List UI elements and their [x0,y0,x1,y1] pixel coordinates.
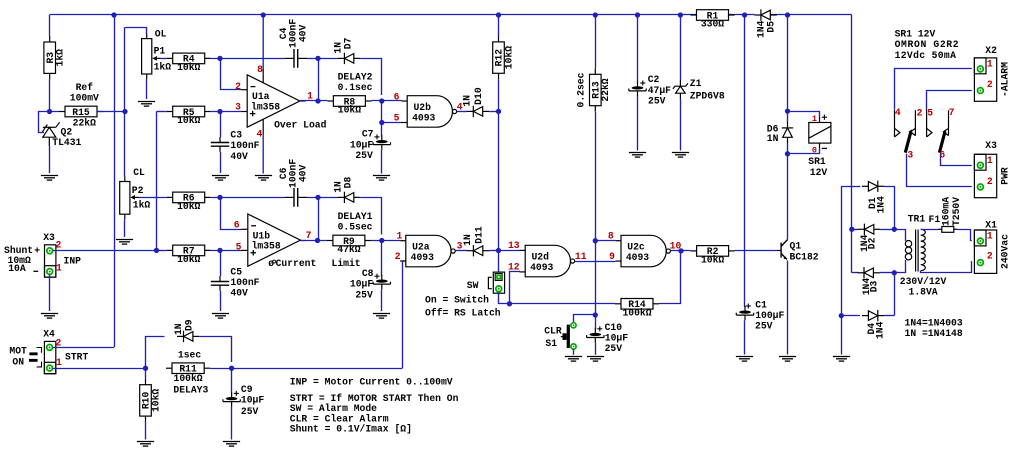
pin stubs U1b [242,228,248,230]
svg-text:P1: P1 [154,45,166,56]
svg-text:Z1: Z1 [690,78,702,89]
svg-text:lm358: lm358 [251,102,280,113]
wire secondary bottom to AC bottom [894,260,905,273]
svg-text:0.1sec: 0.1sec [338,82,373,93]
wire junction down to C3 [220,112,222,138]
svg-text:10μF: 10μF [350,139,373,150]
ground below Q2 [41,176,58,181]
svg-text:ZPD6V8: ZPD6V8 [690,90,725,101]
node U1b out/R9 junction [315,238,320,243]
wire junction down to C8 [381,241,383,277]
node junction rail/R12 [496,12,501,17]
svg-text:1: 1 [56,357,62,368]
svg-text:CLR: CLR [544,326,562,337]
svg-text:12V: 12V [810,167,828,178]
svg-text:10kΩ: 10kΩ [701,255,724,266]
svg-text:4: 4 [895,107,901,118]
svg-text:1N: 1N [462,95,473,107]
svg-text:1kΩ: 1kΩ [154,62,172,73]
node R5/C3/U1a pin3 junction [217,109,222,114]
svg-text:10kΩ: 10kΩ [150,389,161,412]
wire X3 pin1 to ground [49,275,51,312]
svg-text:40V: 40V [230,151,248,162]
ground below P1 [138,102,155,107]
svg-text:25V: 25V [355,150,373,161]
svg-text:INP = Motor Current 0..100mV: INP = Motor Current 0..100mV [290,377,453,388]
wire U2c output to R2 [670,250,690,252]
wire +12V down to relay/D6 [787,15,789,121]
svg-text:10μF: 10μF [241,395,264,406]
ground below C10 [587,357,604,362]
svg-text:OL: OL [155,29,167,40]
wire SW pin2 down [499,293,510,303]
node INP/R5 junction [154,248,159,253]
svg-text:1.8VA: 1.8VA [909,287,938,298]
svg-text:47μF: 47μF [648,85,671,96]
svg-text:C7: C7 [362,129,374,140]
wire U1b output to R9 [300,240,327,242]
capacitor C7 10uF polarized [373,135,390,150]
wire D11 to U2d pin13 [489,250,498,252]
wire C4 to D7 [307,58,338,60]
wire C7 to ground [381,150,383,174]
ground below C7 [373,176,390,181]
svg-text:Current: Current [276,258,317,269]
wire D3 anode to AC bottom [880,272,895,274]
svg-text:100mV: 100mV [70,92,99,103]
svg-text:PWR: PWR [1000,167,1011,185]
wire D3 cathode stub [852,272,858,274]
svg-text:10μF: 10μF [350,279,373,290]
svg-text:12: 12 [508,261,520,272]
wire Q2 to ground [49,146,51,173]
ground below C8 [373,314,390,319]
svg-text:F1: F1 [929,214,941,225]
diode D9 1N4148 [177,331,199,342]
resistor R5 10k [167,106,211,126]
wire rail to R12 [498,15,500,36]
relay coil SR1 [788,112,820,118]
svg-text:CL: CL [133,167,145,178]
node relay top junction [785,108,790,113]
wire contact 6 to X3 pin1 [941,154,972,166]
capacitor C1 100uF polarized [736,306,753,321]
wire Ref node vertical to P1 feed [124,27,126,111]
wire primary top to fuse [921,229,938,231]
wire R10 to ground [145,422,147,439]
pin stubs U1a [242,89,248,91]
svg-text:SW: SW [467,280,479,291]
ground below Q1 [779,357,796,362]
svg-text:1N: 1N [767,133,779,144]
wire raw 12V bus down to C1 [744,15,746,307]
ground below U1a pin4 [255,176,272,181]
svg-text:D10: D10 [473,87,484,105]
logic gate U2c 4093 NAND [621,235,670,266]
wire R4 junction to C4 [211,58,285,60]
svg-text:4093: 4093 [626,252,649,263]
ground below bridge [833,357,850,362]
svg-text:ø: ø [268,258,274,269]
svg-text:+: + [34,245,40,256]
svg-text:1N =1N4148: 1N =1N4148 [905,328,963,339]
wire X2 pin1 to relay contact 4 [895,69,972,110]
diode D7 1N4148 [338,53,360,64]
ground below C2 [629,153,646,158]
wire C8 to ground [381,289,383,311]
diode D11 1N4148 [467,245,489,256]
svg-text:100nF: 100nF [230,140,259,151]
pin stubs U2b [402,100,408,102]
svg-text:R15: R15 [72,107,90,118]
node R3/R15/Q2 junction [47,109,52,114]
svg-text:TR1: TR1 [908,214,926,225]
node R8/D7/U2b pin6 junction [379,98,384,103]
logic gate U2d 4093 NAND [525,245,574,276]
wire junction down to U1b pin6 [221,197,242,229]
wire P2 wiper to R6 [139,197,167,199]
svg-text:7: 7 [949,107,955,118]
transformer TR1 primary coil [921,229,926,270]
resistor R1 330 [691,10,735,30]
svg-text:U1a: U1a [252,91,270,102]
wire U1a pin4 to ground [262,119,264,134]
svg-text:8: 8 [257,64,263,75]
wire P1 wiper row [161,58,167,60]
relay contact set 1 (pins 4/2/3) [895,110,900,137]
ground below S1 [565,357,582,362]
svg-text:6: 6 [234,219,240,230]
svg-text:OMRON G2R2: OMRON G2R2 [895,39,960,50]
svg-text:TL431: TL431 [52,137,81,148]
wire D9 bypass loop left [146,337,165,369]
resistor R2 10k [691,246,735,266]
svg-text:40V: 40V [298,24,309,42]
connector X2 (-ALARM) [974,58,996,101]
wire junction down to C5 [220,250,222,276]
node relay bottom junction [785,151,790,156]
svg-text:INP: INP [64,255,82,266]
svg-text:330Ω: 330Ω [701,19,724,30]
wire Q1 emitter to ground [787,261,789,355]
wire AC bottom to D4 cathode [894,273,896,316]
wire R6 junction to C6 [211,197,285,199]
node STRT/R10/R11/D9 junction [143,366,148,371]
diode D8 1N4148 [338,192,360,203]
svg-text:2: 2 [235,81,241,92]
node R7/C5/U1b pin5 junction [217,248,222,253]
wire Z1 to ground [680,99,682,151]
wire rail to R3 [49,15,51,36]
svg-text:P2: P2 [132,185,144,196]
svg-text:D9: D9 [184,319,195,331]
svg-text:Q2: Q2 [61,126,73,137]
diode D4 1N4003 [862,310,884,321]
wire STRT RC to U2a pin2 [232,368,403,370]
svg-text:Ref: Ref [76,82,94,93]
svg-text:160mA: 160mA [940,197,951,226]
capacitor C2 47uF polarized [629,82,646,97]
svg-text:12Vdc 50mA: 12Vdc 50mA [895,50,957,61]
wire node to Q2 and R15 [39,112,60,133]
wire C2 to ground [637,96,639,150]
svg-text:100nF: 100nF [230,277,259,288]
svg-text:8: 8 [608,230,614,241]
relay contact set 2 (pins 5/7/6) [927,110,932,137]
svg-text:C10: C10 [605,322,623,333]
svg-text:4093: 4093 [530,262,553,273]
wire C6 to D8 [307,197,338,199]
node R13/U2c pin8 junction [593,238,598,243]
wire junction down to U1a pin2 [221,58,242,89]
svg-text:Limit: Limit [332,258,361,269]
ground below R10 [137,442,154,447]
svg-text:2: 2 [55,239,61,250]
svg-text:X1: X1 [985,220,997,231]
wire to R14 [510,303,616,305]
svg-text:Shunt = 0.1V/Imax [Ω]: Shunt = 0.1V/Imax [Ω] [290,424,412,435]
svg-text:4: 4 [256,128,262,139]
connector X4 (STRT input) [44,341,55,373]
svg-text:U1b: U1b [253,230,271,241]
resistor R4 10k [167,53,211,73]
svg-text:10μF: 10μF [605,332,628,343]
wire D1 anode [841,186,860,188]
wire P1 top feed [125,28,147,35]
capacitor C9 10uF polarized [223,392,240,407]
resistor R15 22k [59,106,103,117]
wire ground leg of bridge [841,186,843,315]
node SW/R14/U2d pin12 junction [507,301,512,306]
wire AC top to secondary [894,230,905,241]
wire R7 to U1b pin5 [211,250,242,252]
wire top rail D5 to corner [770,14,852,16]
transformer TR1 core [916,230,919,272]
wire X4 pin2 to VCC vertical [53,347,114,349]
svg-text:100kΩ: 100kΩ [174,373,203,384]
wire D8 to R9 output node [360,198,381,235]
diode D2 1N4003 [858,224,880,235]
resistor R10 10k [140,379,162,422]
node junction rail/X4 feed [111,12,116,17]
ground below C1 [736,357,753,362]
wire to S1 [574,315,596,323]
svg-text:1: 1 [987,230,993,241]
wire up to U2d pin12 [510,272,521,304]
svg-text:X3: X3 [985,140,997,151]
svg-text:BC182: BC182 [790,251,819,262]
wire C9 node down [231,368,233,393]
wire D6 to relay bottom node [787,144,789,154]
wire node down to C10 [595,315,597,330]
svg-text:SR1 12V: SR1 12V [895,28,936,39]
wire VCC top rail left section [50,14,697,16]
resistor R7 10k [167,245,211,265]
svg-text:DELAY2: DELAY2 [338,72,373,83]
wire X2 pin2 to relay contact 5 [927,91,972,111]
svg-text:MOT: MOT [9,346,27,357]
svg-text:10kΩ: 10kΩ [338,105,361,116]
svg-text:2: 2 [987,251,993,262]
wire pin13 [499,250,520,252]
wire R13 to U2c pin8 [595,240,615,242]
wire junction down to R9 output [318,197,320,240]
wire Ref node down to P2 [124,112,126,177]
diode D5 1N4003 [754,9,776,20]
node C6/D8 junction [315,195,320,200]
svg-text:C3: C3 [230,130,242,141]
svg-text:1N: 1N [332,181,343,193]
node bridge positive/D2 [849,227,854,232]
node R13/C10/S1 junction [593,312,598,317]
wire top rail R1 to D5 [728,14,754,16]
svg-text:10A: 10A [8,263,26,274]
wire contact 3 to X3 pin2 [907,154,972,187]
capacitor C4 100nF series [285,49,307,68]
wire R15 to Ref node [97,111,125,113]
node junction rail/U1a pin8 [261,12,266,17]
svg-text:D5: D5 [766,21,777,33]
svg-text:5: 5 [394,113,400,124]
svg-text:SR1: SR1 [808,156,826,167]
svg-text:Over Load: Over Load [274,119,327,130]
wire D7 to R8 output node [360,59,381,96]
svg-text:1N4=1N4003: 1N4=1N4003 [905,318,963,329]
wire R12 down to U2d pin13 node [498,79,500,250]
svg-text:4093: 4093 [411,252,434,263]
svg-text:6: 6 [394,92,400,103]
svg-text:0.2sec: 0.2sec [575,72,586,107]
resistor R14 100k [615,299,659,310]
ground below C9 [223,442,240,447]
node junction rail/C1 bus [742,12,747,17]
svg-text:11: 11 [575,251,587,262]
wire rail to R13 [595,15,597,68]
wire R14 to U2c out branch [659,303,681,305]
capacitor C5 100nF [211,276,229,291]
node junction rail/relay feed [785,12,790,17]
resistor R13 22k vertical [575,68,611,111]
svg-text:10kΩ: 10kΩ [177,115,200,126]
svg-text:47kΩ: 47kΩ [337,244,360,255]
wire R2 to Q1 base [735,250,777,252]
svg-text:40V: 40V [298,164,309,182]
svg-text:240Vac: 240Vac [1000,234,1011,269]
svg-text:5: 5 [236,242,242,253]
svg-text:1: 1 [396,230,402,241]
wire R11 to C9 node [210,368,231,370]
svg-text:On = Switch: On = Switch [425,295,489,306]
node D10/R12 junction [496,109,501,114]
svg-text:3: 3 [907,149,913,160]
wire D10 to R12 bus [489,111,498,113]
connector SW jumper [493,272,504,293]
wire R8 to U2b pin6 [371,100,401,102]
svg-text:25V: 25V [648,95,666,106]
svg-text:1: 1 [987,59,993,70]
wire R5 to U1a pin3 [211,111,242,113]
node U2b pin5/C7 junction [379,120,384,125]
svg-text:13: 13 [508,240,520,251]
svg-text:1: 1 [56,262,62,273]
svg-text:D8: D8 [343,176,354,188]
ground below Z1 [672,153,689,158]
resistor R10 10k vertical [145,368,147,379]
transistor Q2 TL431 shunt regulator [42,122,59,146]
capacitor C3 100nF [211,137,229,152]
node Ref junction [122,109,127,114]
svg-text:ON: ON [12,356,24,367]
wire junction down to R8 input [318,58,320,101]
wire to R5 [157,111,167,113]
wire INP to R5 vertical [156,112,158,251]
svg-text:0: 0 [812,145,817,155]
svg-text:1N4: 1N4 [875,196,886,214]
resistor R8 10k [327,96,371,116]
connector X1 (240Vac) [974,230,996,273]
svg-text:2: 2 [917,107,923,118]
wire R9 to U2a pin1 [371,240,400,242]
pin stubs U2c [615,240,621,242]
wire X3 pin2 INP to R7 [53,250,157,252]
svg-text:X2: X2 [985,45,997,56]
wire D2 cathode stub [852,229,858,231]
svg-text:X3: X3 [43,232,55,243]
wire U2a output to D11 [455,250,467,252]
wire C9 to ground [231,406,233,439]
svg-text:40V: 40V [230,288,248,299]
wire U2c out down to R14 [680,251,682,304]
wire S1 to ground [573,349,575,355]
node AC bottom [892,270,897,275]
wire P1 to ground [146,79,148,99]
svg-text:DELAY3: DELAY3 [173,384,208,395]
switch actuator marks MOT ON [29,348,42,367]
svg-text:C2: C2 [648,74,660,85]
svg-text:10kΩ: 10kΩ [503,46,514,69]
svg-text:3: 3 [235,102,241,113]
connector X3 (PWR) [974,154,996,197]
svg-text:2: 2 [987,79,993,90]
pushbutton S1 CLR [571,323,576,328]
svg-text:T250V: T250V [951,197,962,226]
svg-text:D11: D11 [473,226,484,244]
svg-text:1sec: 1sec [178,350,201,361]
wire U1a pin8 to VCC [262,15,264,68]
wire to R7 [157,250,167,252]
diode D6 1N4148 vertical [782,121,793,143]
node D11/U2d pin13 junction [496,248,501,253]
svg-text:1N: 1N [462,234,473,246]
svg-text:25V: 25V [241,406,259,417]
svg-text:1N: 1N [173,323,184,335]
node junction rail/C2 [635,12,640,17]
wire rail to Z1 [680,15,682,80]
wire R13 bus down [595,241,597,315]
fuse F1 160mA [942,227,954,233]
node junction rail/R13 [593,12,598,17]
svg-text:S1: S1 [545,338,557,349]
svg-text:2: 2 [987,176,993,187]
ground below X3 INP [41,314,58,319]
svg-text:9: 9 [609,251,615,262]
svg-text:7: 7 [306,230,312,241]
resistor R3 1k vertical [44,36,66,79]
svg-text:1N4: 1N4 [875,321,886,339]
wire C1 to ground [744,320,746,354]
svg-text:X4: X4 [43,329,55,340]
wire D4 anode [841,315,860,317]
